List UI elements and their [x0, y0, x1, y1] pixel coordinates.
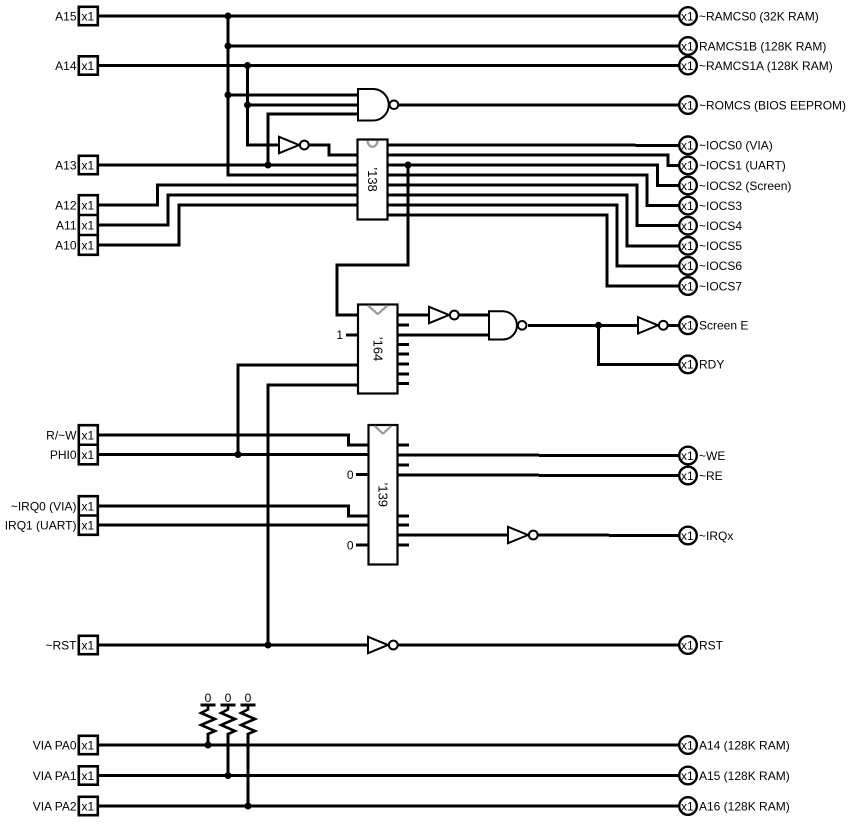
output RST	[679, 636, 723, 654]
svg-text:’164: ’164	[370, 337, 385, 362]
svg-text:A14: A14	[55, 59, 77, 73]
wire IRQx after inv	[538, 534, 679, 538]
shift register U5 '164	[358, 305, 398, 394]
wire A15 trunk vertical	[228, 16, 359, 175]
svg-text:x1: x1	[681, 358, 694, 372]
wire PHI0 row	[97, 453, 370, 456]
input group R/~W and PHI0	[46, 425, 98, 464]
svg-text:~RE: ~RE	[699, 469, 723, 483]
resistor R1 (pulldown 0)	[201, 691, 216, 745]
wire 164 stub 5	[397, 382, 410, 385]
input VIA PA1	[33, 766, 98, 784]
output Screen E	[679, 317, 748, 335]
wire RAMCS1B row	[228, 45, 679, 48]
svg-text:x1: x1	[681, 638, 694, 652]
svg-text:0: 0	[347, 539, 354, 553]
svg-text:x1: x1	[82, 738, 95, 752]
svg-text:0: 0	[347, 468, 354, 482]
svg-text:x1: x1	[82, 428, 95, 442]
wire 164 stub 2	[397, 353, 410, 356]
svg-text:x1: x1	[82, 218, 95, 232]
svg-text:Screen E: Screen E	[699, 319, 748, 333]
wire const1 stub	[346, 334, 359, 337]
wire 139 stub 1	[397, 464, 410, 467]
svg-text:x1: x1	[681, 199, 694, 213]
wire A12 route	[97, 185, 359, 205]
svg-text:VIA PA0: VIA PA0	[33, 738, 77, 752]
svg-text:x1: x1	[681, 769, 694, 783]
svg-text:~IOCS6: ~IOCS6	[699, 259, 742, 273]
svg-text:x1: x1	[681, 319, 694, 333]
wire 138 Y3	[386, 175, 679, 206]
svg-text:R/~W: R/~W	[46, 428, 77, 442]
output ~IOCS4	[679, 217, 742, 235]
svg-text:x1: x1	[82, 9, 95, 23]
svg-text:x1: x1	[681, 469, 694, 483]
svg-text:x1: x1	[681, 449, 694, 463]
svg-text:VIA PA2: VIA PA2	[33, 799, 77, 813]
wire NAND out ROMCS	[398, 104, 680, 107]
junction A13	[265, 162, 272, 169]
svg-text:~IOCS4: ~IOCS4	[699, 219, 742, 233]
wire R3 tail	[247, 733, 250, 806]
svg-text:~IOCS2 (Screen): ~IOCS2 (Screen)	[699, 179, 791, 193]
svg-text:A12: A12	[55, 198, 77, 212]
wire ScreenE after inv	[668, 324, 679, 327]
svg-text:x1: x1	[681, 239, 694, 253]
svg-text:RDY: RDY	[699, 358, 724, 372]
wire RDY branch	[599, 325, 680, 364]
svg-text:VIA PA1: VIA PA1	[33, 769, 77, 783]
wire 164 stub 3	[397, 363, 410, 366]
svg-text:’138: ’138	[365, 167, 380, 192]
output RDY	[679, 356, 724, 374]
output RAMCS1B	[679, 37, 826, 55]
svg-text:~RAMCS1A (128K RAM): ~RAMCS1A (128K RAM)	[699, 59, 833, 73]
resistor R2 (pulldown 0)	[221, 691, 236, 776]
svg-text:x1: x1	[82, 638, 95, 652]
svg-text:x1: x1	[681, 279, 694, 293]
svg-text:~IRQ0 (VIA): ~IRQ0 (VIA)	[11, 499, 77, 513]
input A14	[55, 56, 98, 74]
wire 138 Y1	[386, 155, 679, 165]
output ~ROMCS	[679, 96, 846, 114]
wire A10 route	[97, 205, 359, 245]
wire NAND input 2	[248, 104, 360, 107]
output ~RAMCS0	[679, 7, 819, 25]
svg-text:~IRQx: ~IRQx	[699, 529, 733, 543]
wire 164 stub 4	[397, 372, 410, 375]
output ~RAMCS1A	[679, 57, 833, 75]
wire 138 Y5	[386, 195, 679, 246]
svg-text:0: 0	[245, 691, 252, 705]
output A14 (128K RAM)	[679, 736, 790, 754]
svg-text:~RAMCS0 (32K RAM): ~RAMCS0 (32K RAM)	[699, 9, 819, 23]
svg-text:RAMCS1B (128K RAM): RAMCS1B (128K RAM)	[699, 39, 826, 53]
input group A12/A11/A10	[55, 195, 98, 255]
wire RST to 164 clr	[268, 385, 359, 645]
output ~IOCS3	[679, 197, 742, 215]
wire VIA PA1 row	[97, 774, 679, 777]
junction PHI0	[235, 451, 242, 458]
svg-text:x1: x1	[82, 448, 95, 462]
svg-text:’139: ’139	[376, 482, 391, 507]
decoder U6 '139	[369, 425, 398, 565]
inverter U3 (164 QA)	[429, 307, 459, 323]
wire R/~W	[97, 435, 370, 445]
wire RST after inv	[398, 644, 679, 647]
svg-text:RST: RST	[699, 638, 724, 652]
svg-text:x1: x1	[82, 499, 95, 513]
wire R1 tail	[207, 733, 210, 745]
wire VIA PA0 row	[97, 744, 679, 747]
wire inverter U3 out	[457, 314, 489, 317]
svg-text:~RST: ~RST	[45, 638, 77, 652]
svg-text:x1: x1	[82, 518, 95, 532]
junction A14/RAMCS1A	[244, 62, 251, 69]
wire ~RE	[397, 474, 680, 478]
inverter U8 (Screen E)	[638, 317, 668, 333]
output ~IOCS0	[679, 137, 772, 155]
svg-text:A15: A15	[55, 9, 77, 23]
svg-text:PHI0: PHI0	[50, 448, 77, 462]
wire ~WE	[397, 454, 680, 458]
output ~IOCS1	[679, 157, 786, 175]
svg-text:~IOCS5: ~IOCS5	[699, 239, 742, 253]
input A13	[55, 156, 98, 174]
input group IRQ inputs	[5, 496, 98, 535]
svg-text:x1: x1	[681, 259, 694, 273]
input VIA PA0	[33, 736, 98, 754]
svg-text:x1: x1	[681, 159, 694, 173]
wire A11 route	[97, 195, 359, 225]
output ~WE	[679, 447, 725, 465]
wire NAND input 1	[228, 94, 359, 97]
junction A15/RAMCS0	[225, 13, 232, 20]
wire Y2 tap to 164	[337, 165, 408, 315]
wire 138 Y0	[386, 144, 679, 147]
svg-text:x1: x1	[82, 59, 95, 73]
svg-text:x1: x1	[82, 198, 95, 212]
wire R2 tail	[227, 733, 230, 776]
junction R2/PA1	[225, 772, 232, 779]
output ~IOCS2	[679, 177, 791, 195]
svg-text:1: 1	[336, 328, 343, 342]
inverter U10 (RST)	[368, 637, 398, 653]
input A15	[55, 7, 98, 25]
wire 139 const0 stub bottom	[356, 543, 370, 546]
junction ScreenE/RDY	[595, 322, 602, 329]
wire A15 row	[97, 15, 679, 18]
wire NAND input 3	[268, 114, 359, 165]
svg-text:A11: A11	[56, 218, 77, 232]
wire 139 stub 2	[397, 514, 410, 517]
wire inverter U2 out to 138	[306, 145, 359, 155]
and-not gate U7 (Screen)	[489, 311, 526, 339]
svg-text:~IOCS0 (VIA): ~IOCS0 (VIA)	[699, 139, 773, 153]
wire VIA PA2 row	[97, 805, 679, 808]
svg-text:x1: x1	[681, 799, 694, 813]
wire 139 const0 stub top	[356, 473, 370, 476]
svg-text:x1: x1	[681, 139, 694, 153]
svg-text:x1: x1	[681, 179, 694, 193]
output ~IOCS5	[679, 237, 742, 255]
inverter U2 (A14)	[279, 137, 309, 153]
output A15 (128K RAM)	[679, 767, 790, 785]
decoder U4 '138	[358, 140, 388, 220]
svg-text:0: 0	[225, 691, 232, 705]
svg-text:~ROMCS (BIOS EEPROM): ~ROMCS (BIOS EEPROM)	[699, 98, 846, 112]
input ~RST	[45, 636, 97, 654]
wire 138 Y7	[386, 215, 679, 286]
wire 138 Y2	[386, 165, 679, 186]
svg-text:x1: x1	[82, 769, 95, 783]
svg-text:x1: x1	[82, 799, 95, 813]
wire 164 QA to inverter	[397, 314, 430, 317]
inverter U9 (IRQx)	[508, 527, 538, 543]
wire ~IRQ0	[97, 506, 370, 516]
junction NAND1	[225, 92, 232, 99]
wire 138 Y4	[386, 185, 679, 226]
svg-text:x1: x1	[681, 219, 694, 233]
wire 164 QC to gate	[397, 333, 490, 336]
resistor R3 (pulldown 0)	[241, 691, 256, 806]
wire 139 stub 0	[397, 444, 410, 447]
svg-text:A15 (128K RAM): A15 (128K RAM)	[699, 769, 790, 783]
junction RAMCS1B	[225, 43, 232, 50]
svg-text:IRQ1 (UART): IRQ1 (UART)	[5, 518, 77, 532]
svg-text:x1: x1	[681, 9, 694, 23]
wire 164 stub 0	[397, 323, 410, 326]
junction R1/PA0	[205, 742, 212, 749]
svg-text:x1: x1	[82, 158, 95, 172]
svg-text:A10: A10	[55, 238, 77, 252]
output ~IRQx	[679, 527, 733, 545]
wire A14 row	[97, 64, 679, 67]
svg-text:~IOCS7: ~IOCS7	[699, 279, 742, 293]
svg-text:A14 (128K RAM): A14 (128K RAM)	[699, 738, 790, 752]
junction Y2 tap	[405, 162, 412, 169]
svg-text:0: 0	[205, 691, 212, 705]
wire gate out	[528, 324, 638, 327]
svg-text:x1: x1	[681, 59, 694, 73]
wire 139 stub 4	[397, 543, 410, 546]
wire PHI0 to 164 clk	[238, 365, 359, 455]
svg-text:x1: x1	[681, 98, 694, 112]
output ~IOCS6	[679, 257, 742, 275]
wire 139 to IRQ inverter	[397, 534, 509, 537]
svg-text:A16 (128K RAM): A16 (128K RAM)	[699, 799, 790, 813]
svg-text:~IOCS1 (UART): ~IOCS1 (UART)	[699, 159, 786, 173]
wire ~RST row	[97, 644, 368, 647]
input VIA PA2	[33, 797, 98, 815]
wire 139 stub 3	[397, 524, 410, 527]
output ~IOCS7	[679, 277, 742, 295]
wire 138 Y6	[386, 205, 679, 266]
nand gate U1 (3-input)	[358, 89, 398, 121]
wire A14 trunk vertical	[248, 66, 280, 146]
output ~RE	[679, 467, 722, 485]
wire 164 stub 1	[397, 343, 410, 346]
svg-text:x1: x1	[681, 39, 694, 53]
output A16 (128K RAM)	[679, 797, 790, 815]
svg-text:x1: x1	[82, 238, 95, 252]
junction R3/PA2	[245, 803, 252, 810]
junction NAND2	[244, 102, 251, 109]
svg-text:~IOCS3: ~IOCS3	[699, 199, 742, 213]
svg-text:A13: A13	[55, 158, 77, 172]
junction RST	[265, 642, 272, 649]
svg-text:x1: x1	[681, 529, 694, 543]
svg-text:~WE: ~WE	[699, 449, 725, 463]
wire IRQ1 row	[97, 524, 370, 527]
wire A13 row	[97, 164, 359, 167]
svg-text:x1: x1	[681, 738, 694, 752]
